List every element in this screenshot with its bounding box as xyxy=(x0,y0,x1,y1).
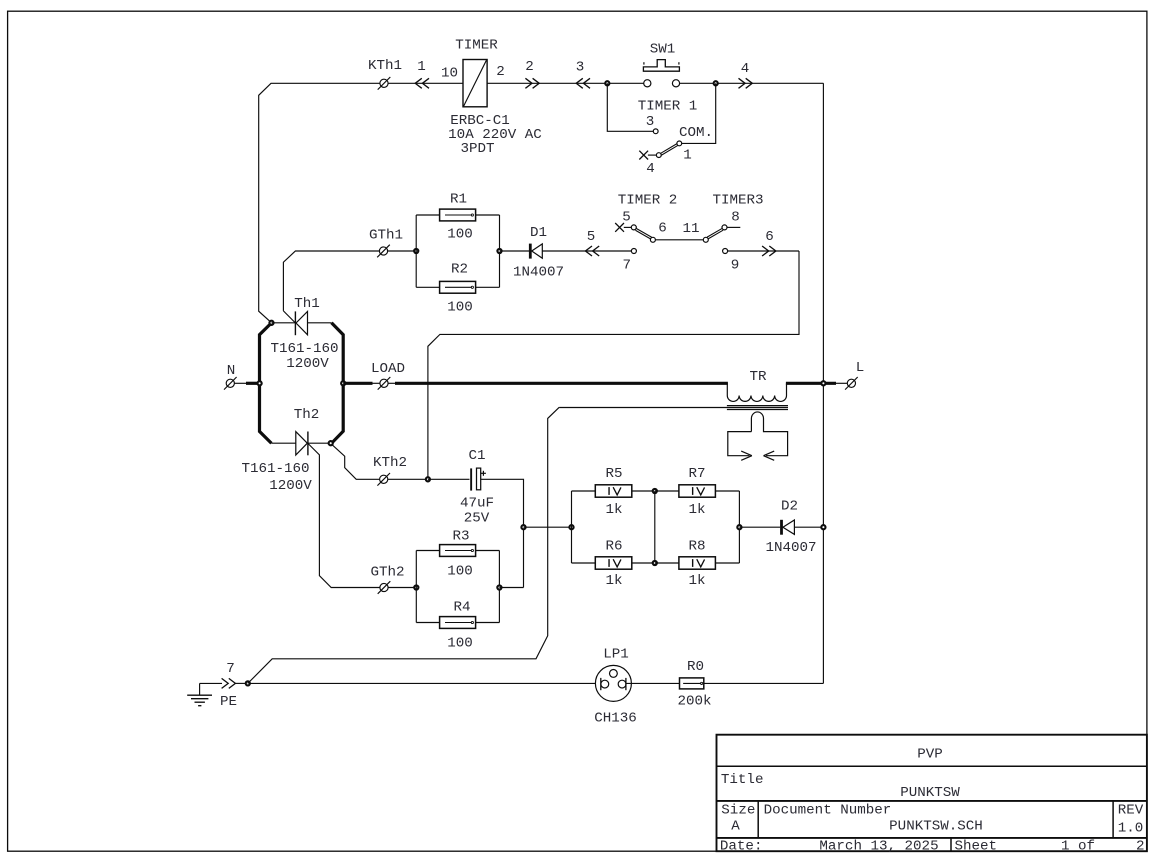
svg-text:7: 7 xyxy=(226,661,235,677)
connector 7 xyxy=(229,678,236,688)
wire xyxy=(571,491,573,563)
svg-text:R7: R7 xyxy=(688,466,705,482)
svg-text:T161-160: T161-160 xyxy=(241,461,309,477)
junction xyxy=(414,585,418,589)
svg-text:Document Number: Document Number xyxy=(764,803,892,819)
wire xyxy=(794,526,823,528)
svg-text:Th1: Th1 xyxy=(294,296,320,312)
no-connect pin 4 xyxy=(639,151,648,160)
wire xyxy=(308,322,332,324)
resistor R3 xyxy=(440,545,476,557)
wire xyxy=(416,286,439,288)
wire xyxy=(654,491,656,563)
svg-text:LP1: LP1 xyxy=(603,647,629,663)
title block xyxy=(717,735,1147,852)
connector 6 xyxy=(769,246,776,256)
svg-text:47uF: 47uF xyxy=(460,496,494,512)
svg-text:25V: 25V xyxy=(464,511,490,527)
wire xyxy=(373,382,380,384)
svg-text:6: 6 xyxy=(658,221,667,237)
wire xyxy=(680,82,824,84)
resistor R7 xyxy=(679,485,716,497)
wire xyxy=(476,214,500,216)
node LOAD xyxy=(380,379,388,387)
wire xyxy=(428,478,470,480)
svg-text:TR: TR xyxy=(749,369,767,385)
svg-text:1 of: 1 of xyxy=(1061,839,1095,855)
wire xyxy=(655,490,679,492)
junction xyxy=(653,561,657,565)
svg-text:1200V: 1200V xyxy=(286,356,329,372)
svg-text:100: 100 xyxy=(447,636,473,652)
wire xyxy=(476,286,500,288)
svg-text:R2: R2 xyxy=(451,262,468,278)
contact TIMER3 pin 8 xyxy=(722,225,727,230)
wire xyxy=(498,551,500,623)
svg-text:REV: REV xyxy=(1118,803,1144,819)
no-connect pin 5 xyxy=(615,223,624,232)
wire xyxy=(648,154,656,156)
switch arm TIMER 1 xyxy=(660,144,677,154)
wire xyxy=(388,82,463,84)
junction xyxy=(521,525,525,529)
svg-text:8: 8 xyxy=(731,210,740,226)
wire xyxy=(836,382,847,384)
wire xyxy=(259,83,380,322)
svg-text:R0: R0 xyxy=(687,659,704,675)
svg-text:Size: Size xyxy=(721,803,755,819)
junction xyxy=(246,681,250,685)
junction xyxy=(569,525,573,529)
svg-text:D1: D1 xyxy=(530,225,547,241)
node GTh2 xyxy=(380,583,388,591)
wire xyxy=(559,407,788,409)
svg-text:PUNKTSW: PUNKTSW xyxy=(900,785,960,801)
svg-text:2: 2 xyxy=(496,64,505,80)
wire xyxy=(524,526,572,528)
contact TIMER 1 common xyxy=(677,141,682,146)
junction xyxy=(258,381,262,385)
wire xyxy=(739,526,780,528)
svg-text:1k: 1k xyxy=(688,502,705,518)
svg-text:N: N xyxy=(227,363,236,379)
junction xyxy=(605,81,609,85)
wire xyxy=(572,562,596,564)
wire xyxy=(655,562,679,564)
svg-text:KTh2: KTh2 xyxy=(373,455,407,471)
junction xyxy=(497,249,501,253)
connector 3 xyxy=(576,78,583,88)
junction xyxy=(414,249,418,253)
svg-text:3PDT: 3PDT xyxy=(460,141,494,157)
resistor R2 xyxy=(440,281,476,293)
svg-text:R4: R4 xyxy=(453,600,470,616)
wire xyxy=(388,382,396,384)
wire xyxy=(626,682,680,684)
switch SW1 xyxy=(644,80,651,87)
diode D1 xyxy=(529,244,532,259)
wire xyxy=(235,382,247,384)
svg-text:Date:: Date: xyxy=(720,839,763,855)
wire xyxy=(738,491,740,563)
wire xyxy=(200,682,222,684)
junction xyxy=(821,381,825,385)
svg-text:100: 100 xyxy=(447,227,473,243)
thyristor Th1 xyxy=(294,311,296,335)
capacitor C1 xyxy=(470,468,472,490)
svg-text:3: 3 xyxy=(576,60,585,76)
svg-text:T161-160: T161-160 xyxy=(270,341,338,357)
wire xyxy=(682,83,716,143)
contact TIMER 1 pin 3 xyxy=(653,129,658,134)
svg-text:2: 2 xyxy=(525,59,534,75)
junction xyxy=(653,489,657,493)
svg-text:CH136: CH136 xyxy=(594,711,637,727)
node GTh1 xyxy=(379,247,387,255)
wire thick xyxy=(786,382,836,385)
node KTh1 xyxy=(380,79,388,87)
svg-text:3: 3 xyxy=(646,114,655,130)
wire xyxy=(388,250,416,252)
wire xyxy=(272,322,295,324)
svg-text:March 13, 2025: March 13, 2025 xyxy=(819,839,938,855)
contact TIMER 2 pin 7 xyxy=(631,249,636,254)
wire xyxy=(428,251,799,479)
svg-text:5: 5 xyxy=(587,229,596,245)
junction xyxy=(341,381,345,385)
wire xyxy=(715,562,739,564)
svg-text:PUNKTSW.SCH: PUNKTSW.SCH xyxy=(889,819,983,835)
svg-text:1: 1 xyxy=(683,148,692,164)
wire xyxy=(250,682,601,684)
node N xyxy=(226,379,234,387)
svg-text:R8: R8 xyxy=(688,539,705,555)
wire xyxy=(632,562,655,564)
wire xyxy=(822,83,824,683)
node L xyxy=(847,379,855,387)
svg-text:TIMER 2: TIMER 2 xyxy=(618,193,678,209)
connector 5 xyxy=(585,246,592,256)
svg-text:1N4007: 1N4007 xyxy=(513,265,564,281)
svg-text:1200V: 1200V xyxy=(269,478,312,494)
svg-text:10: 10 xyxy=(441,66,458,82)
svg-text:R5: R5 xyxy=(605,466,622,482)
contact TIMER 2 pin 6 xyxy=(650,237,655,242)
svg-text:GTh2: GTh2 xyxy=(370,565,404,581)
wire thick xyxy=(246,382,260,385)
wire xyxy=(704,682,824,684)
svg-text:Sheet: Sheet xyxy=(955,839,998,855)
wire xyxy=(283,251,379,311)
wire xyxy=(271,442,295,444)
wire thick xyxy=(395,382,728,385)
svg-text:4: 4 xyxy=(646,161,655,177)
junction xyxy=(329,441,333,445)
wire xyxy=(481,479,524,587)
switch arm TIMER3 xyxy=(708,230,723,239)
diode D2 xyxy=(780,520,783,535)
svg-text:1: 1 xyxy=(417,59,426,75)
contact TIMER3 pin 11 xyxy=(703,237,708,242)
wire xyxy=(624,226,632,228)
svg-text:1k: 1k xyxy=(605,573,622,589)
svg-text:PE: PE xyxy=(220,694,237,710)
svg-text:GTh1: GTh1 xyxy=(369,228,403,244)
junction xyxy=(426,477,430,481)
wire xyxy=(476,622,500,624)
wire xyxy=(655,239,703,241)
resistor R8 xyxy=(679,557,716,569)
wire xyxy=(487,82,643,84)
contact TIMER 2 pin xyxy=(631,225,636,230)
wire xyxy=(388,478,428,480)
wire xyxy=(308,442,331,444)
connector 4 xyxy=(746,78,753,88)
svg-text:100: 100 xyxy=(447,564,473,580)
svg-text:TIMER 1: TIMER 1 xyxy=(638,99,698,115)
lamp LP1 xyxy=(595,665,631,701)
wire xyxy=(416,214,439,216)
junction xyxy=(269,321,273,325)
junction xyxy=(714,81,718,85)
wire xyxy=(500,250,530,252)
ground PE xyxy=(199,683,201,695)
junction xyxy=(497,585,501,589)
wire xyxy=(632,490,655,492)
wire xyxy=(235,682,246,684)
svg-text:Title: Title xyxy=(721,772,764,788)
svg-text:11: 11 xyxy=(682,221,699,237)
connector 1 xyxy=(415,78,422,88)
wire xyxy=(607,83,653,131)
svg-text:KTh1: KTh1 xyxy=(368,58,402,74)
svg-text:100: 100 xyxy=(447,300,473,316)
wire xyxy=(476,550,500,552)
svg-text:PVP: PVP xyxy=(917,747,943,763)
wire xyxy=(415,215,417,287)
wire xyxy=(415,551,417,623)
svg-text:D2: D2 xyxy=(781,499,798,515)
contact TIMER3 pin 9 xyxy=(723,249,728,254)
resistor R1 xyxy=(440,209,476,221)
svg-text:5: 5 xyxy=(622,210,631,226)
wire xyxy=(308,443,380,587)
transformer TR primary xyxy=(726,383,728,395)
svg-text:R6: R6 xyxy=(605,539,622,555)
transformer TR core xyxy=(727,405,788,407)
svg-text:R3: R3 xyxy=(452,529,469,545)
svg-text:200k: 200k xyxy=(677,694,711,710)
svg-text:1.0: 1.0 xyxy=(1118,821,1144,837)
svg-text:A: A xyxy=(731,819,740,835)
switch arm TIMER 2 xyxy=(635,230,650,239)
svg-text:TIMER3: TIMER3 xyxy=(712,193,763,209)
svg-text:7: 7 xyxy=(623,258,632,274)
junction xyxy=(821,525,825,529)
wire xyxy=(715,490,739,492)
wire thick xyxy=(343,382,372,385)
wire xyxy=(728,250,799,252)
relay coil TIMER K1 xyxy=(463,60,487,107)
resistor R5 xyxy=(595,485,632,497)
svg-text:1k: 1k xyxy=(688,573,705,589)
wire xyxy=(727,226,740,228)
svg-text:SW1: SW1 xyxy=(650,42,676,58)
wire thick loop right xyxy=(332,323,344,444)
svg-text:LOAD: LOAD xyxy=(371,361,405,377)
connector 2 xyxy=(533,78,540,88)
wire xyxy=(332,444,380,479)
wire xyxy=(542,250,631,252)
resistor R4 xyxy=(440,617,476,629)
wire xyxy=(499,215,501,287)
svg-text:COM.: COM. xyxy=(679,125,713,141)
thyristor Th2 xyxy=(307,432,309,456)
wire xyxy=(248,407,559,683)
svg-text:TIMER: TIMER xyxy=(455,38,498,54)
wire xyxy=(388,587,416,589)
svg-text:4: 4 xyxy=(741,61,750,77)
wire xyxy=(499,587,523,589)
wire xyxy=(572,490,596,492)
wire xyxy=(416,622,439,624)
transformer TR secondary xyxy=(751,412,787,456)
svg-text:1k: 1k xyxy=(605,502,622,518)
junction xyxy=(737,525,741,529)
wire thick loop left xyxy=(260,323,272,444)
resistor R6 xyxy=(595,557,632,569)
node KTh2 xyxy=(380,475,388,483)
svg-text:2: 2 xyxy=(1136,839,1145,855)
svg-text:R1: R1 xyxy=(450,192,467,208)
svg-text:Th2: Th2 xyxy=(294,407,320,423)
resistor R0 xyxy=(680,678,704,689)
svg-text:1N4007: 1N4007 xyxy=(765,540,816,556)
wire xyxy=(416,550,439,552)
svg-text:L: L xyxy=(856,360,865,376)
svg-text:6: 6 xyxy=(765,229,774,245)
svg-text:9: 9 xyxy=(731,258,740,274)
svg-text:C1: C1 xyxy=(468,448,485,464)
